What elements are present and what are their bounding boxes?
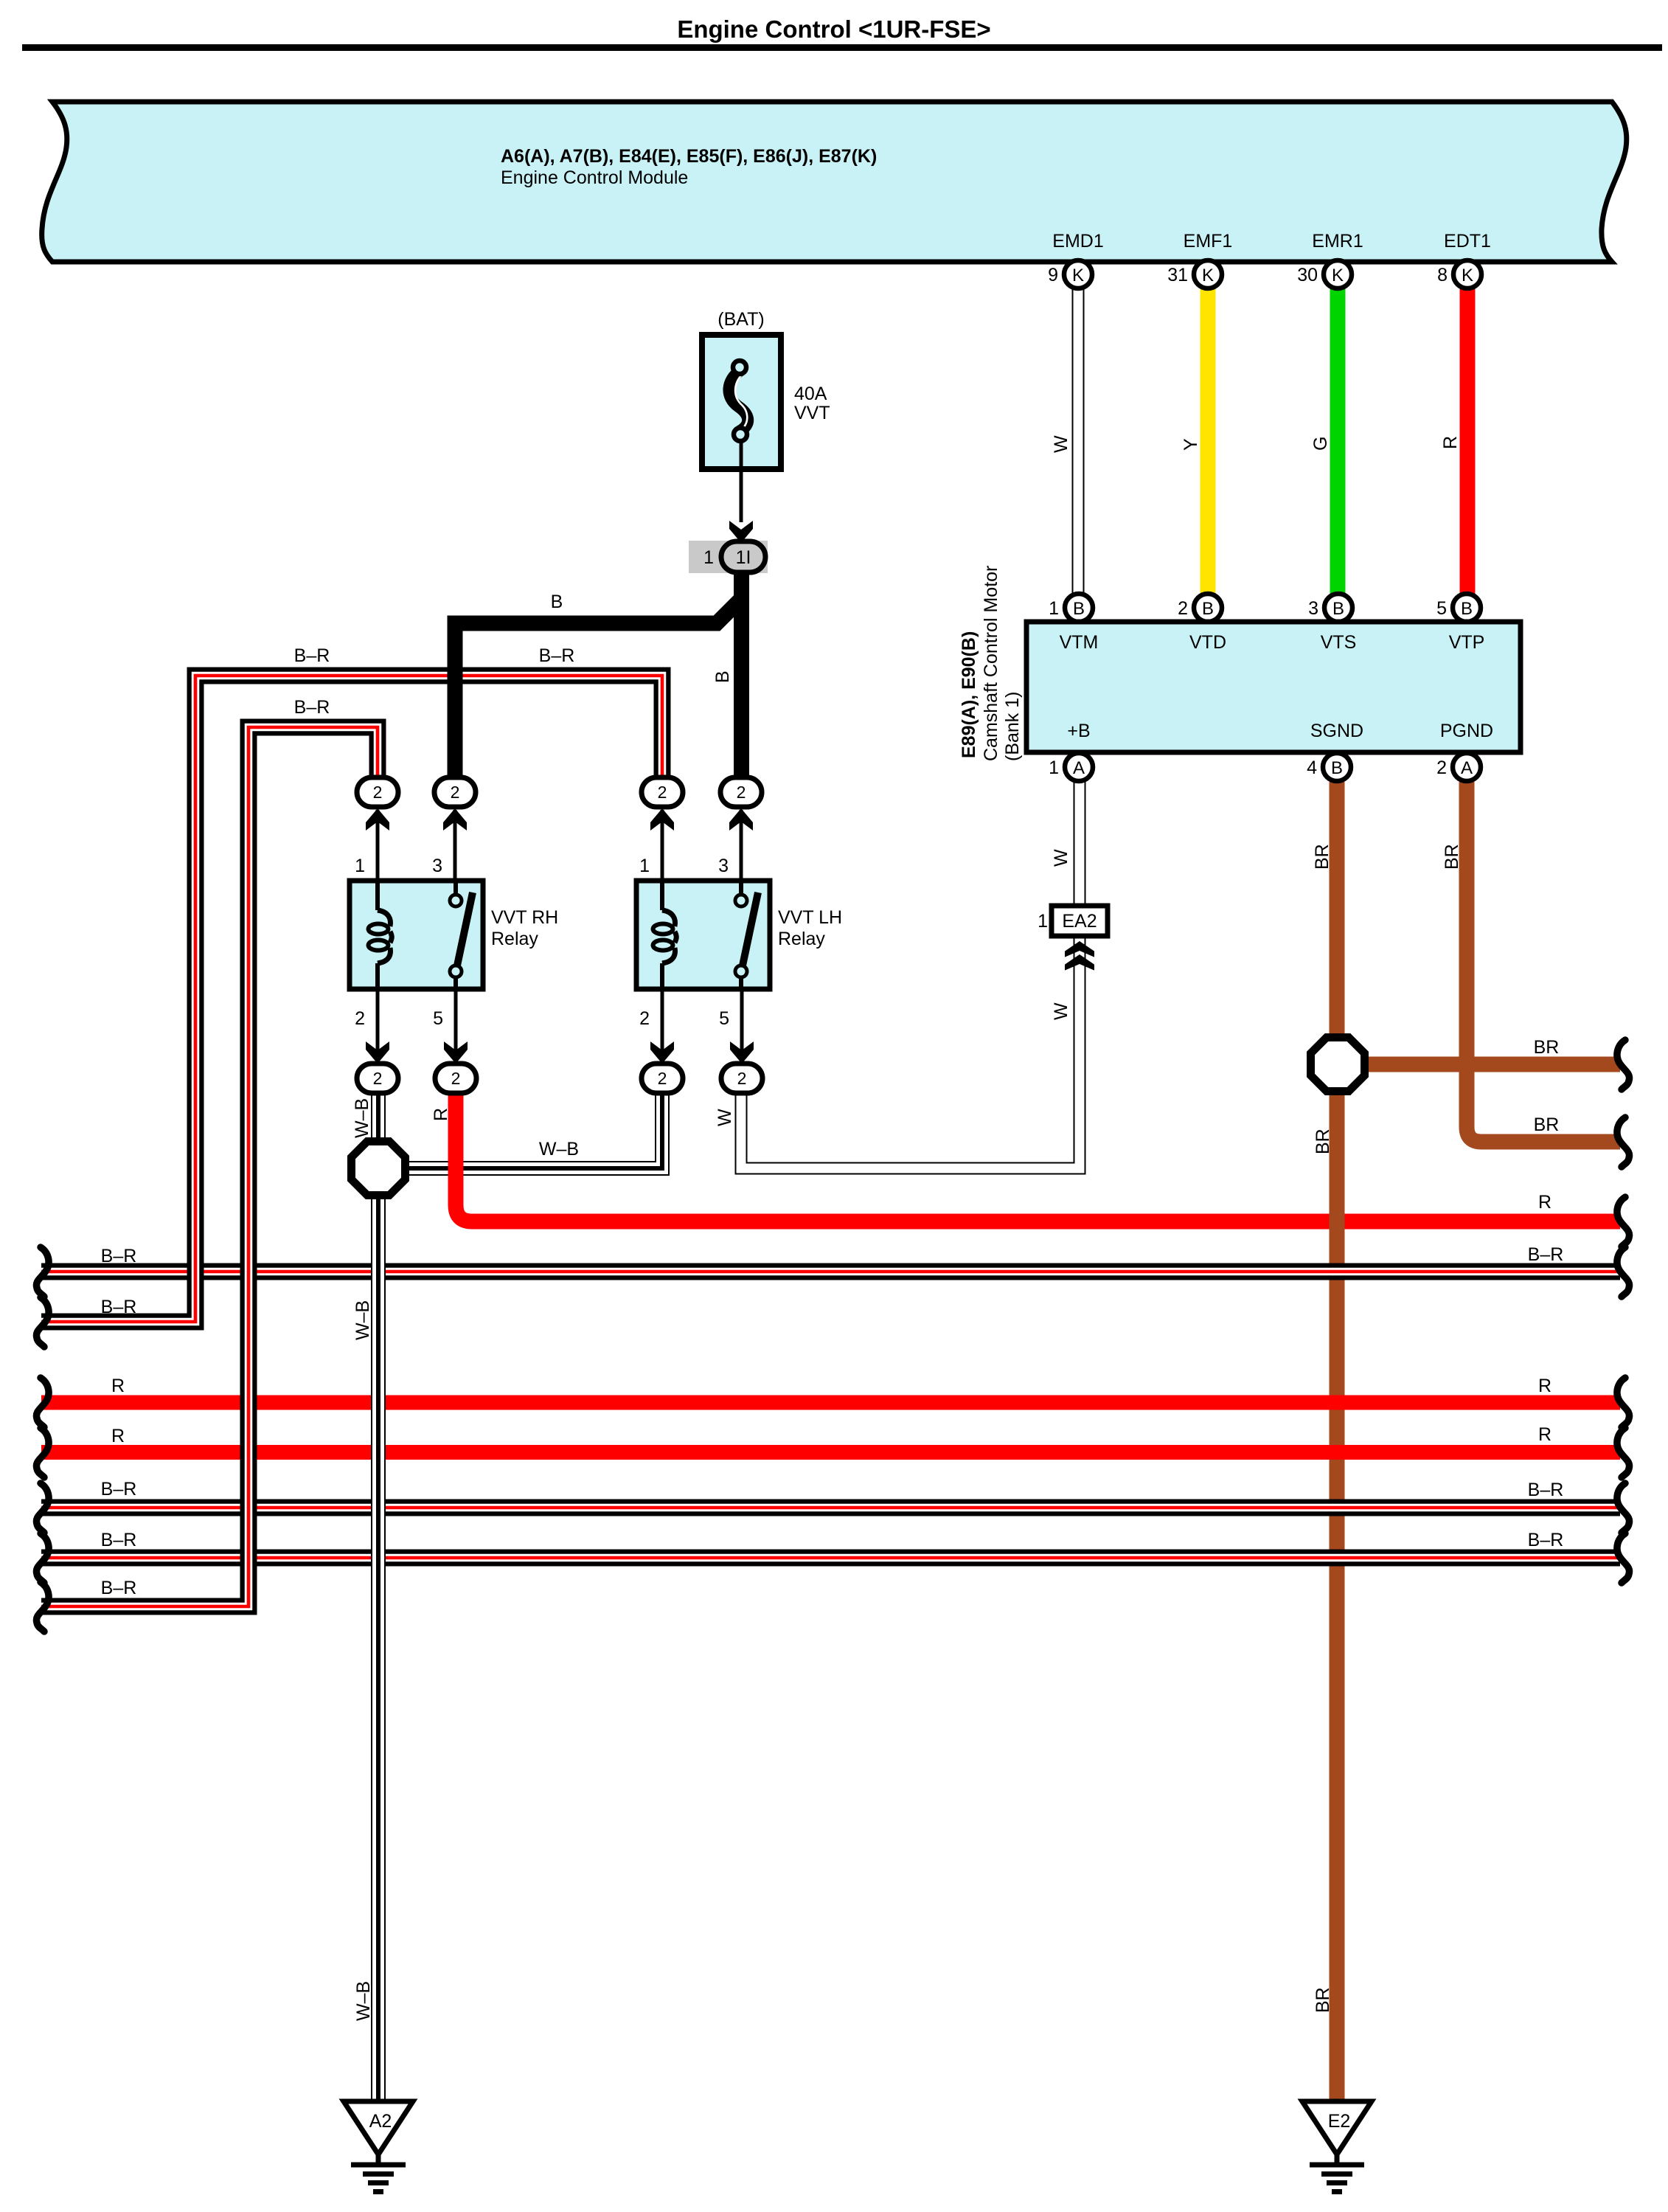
arrow into connector 1I <box>729 521 753 543</box>
break symbol BR branch right <box>1617 1040 1630 1089</box>
svg-text:EA2: EA2 <box>1062 911 1097 932</box>
svg-text:VVT: VVT <box>794 403 830 423</box>
wire BR SGND down to E2 <box>1330 782 1345 2101</box>
svg-text:R: R <box>431 1108 451 1121</box>
svg-text:B–R: B–R <box>294 697 330 718</box>
svg-text:2: 2 <box>355 1008 365 1029</box>
svg-text:1: 1 <box>639 856 650 876</box>
svg-text:B–R: B–R <box>101 1530 137 1550</box>
break symbol bus1 left <box>36 1247 49 1297</box>
wire relay pin 3 upper x=617 <box>454 810 457 881</box>
svg-text:1: 1 <box>1038 911 1048 932</box>
svg-text:VTS: VTS <box>1321 632 1357 653</box>
wire relay pin 2 lower x=512 <box>376 989 380 1062</box>
svg-text:BR: BR <box>1312 844 1332 870</box>
connector 2 below relay pin 5 <box>435 1064 476 1093</box>
svg-text:W: W <box>1051 849 1071 867</box>
svg-text:VTP: VTP <box>1449 632 1485 653</box>
svg-text:2: 2 <box>737 783 746 802</box>
svg-text:B–R: B–R <box>539 645 575 666</box>
svg-text:30: 30 <box>1297 265 1318 285</box>
wire relay pin 3 upper x=1005 <box>740 810 743 881</box>
svg-text:BR: BR <box>1534 1114 1560 1135</box>
svg-text:G: G <box>1310 437 1331 451</box>
svg-text:R: R <box>111 1376 125 1396</box>
break symbol bus3 right <box>1617 1483 1630 1533</box>
motor pin 1 (B) VTM <box>1049 594 1093 622</box>
svg-text:R: R <box>1538 1424 1551 1445</box>
EA2 double chevron <box>1065 941 1094 957</box>
ground E2 <box>1302 2101 1372 2192</box>
junction octagon (BR) <box>1311 1038 1365 1092</box>
svg-text:E2: E2 <box>1328 2111 1351 2132</box>
svg-text:2: 2 <box>737 1069 747 1088</box>
svg-text:Y: Y <box>1181 438 1201 451</box>
break symbol bus3 left <box>36 1483 49 1533</box>
svg-text:5: 5 <box>433 1008 443 1029</box>
svg-text:VTD: VTD <box>1189 632 1226 653</box>
wire relay pin 1 upper x=512 <box>376 810 380 881</box>
svg-text:3: 3 <box>718 856 729 876</box>
svg-text:R: R <box>1440 436 1461 449</box>
ECM pin 30 (K) EMR1 <box>1297 260 1352 288</box>
svg-text:3: 3 <box>432 856 442 876</box>
relay VVT RH box <box>350 881 483 989</box>
svg-text:1: 1 <box>1049 757 1059 778</box>
wire relay pin 2 lower x=898 <box>661 989 664 1062</box>
connector 2 above relay pin 1 <box>357 777 398 807</box>
svg-text:B: B <box>712 670 733 683</box>
bus wire R lower <box>41 1445 1620 1460</box>
wire relay pin 5 lower x=1006 <box>740 989 744 1062</box>
camshaft control motor E89/E90 box <box>1026 622 1521 752</box>
svg-text:EMD1: EMD1 <box>1052 231 1103 252</box>
svg-text:Camshaft Control Motor: Camshaft Control Motor <box>981 566 1001 761</box>
wire relay pin 1 upper x=898 <box>661 810 664 881</box>
ECM A6/A7/E84-E87 Engine Control Module box <box>42 102 1627 262</box>
svg-text:EDT1: EDT1 <box>1444 231 1491 252</box>
svg-text:EMF1: EMF1 <box>1184 231 1233 252</box>
connector 1I (gray highlight) <box>689 541 768 573</box>
svg-text:2: 2 <box>451 1069 461 1088</box>
svg-text:B–R: B–R <box>101 1297 137 1317</box>
svg-text:W–B: W–B <box>539 1139 579 1159</box>
svg-text:BR: BR <box>1313 1128 1333 1154</box>
connector 2 above relay pin 1 <box>642 777 683 807</box>
svg-text:Engine Control Module: Engine Control Module <box>501 167 688 188</box>
svg-text:W–B: W–B <box>353 1981 374 2021</box>
connector 2 below relay pin 5 <box>721 1064 762 1093</box>
wire W-B from VVT LH relay pin2 to junction <box>378 1092 662 1168</box>
svg-text:B–R: B–R <box>101 1578 137 1598</box>
wire relay pin 5 lower x=618 <box>454 989 458 1062</box>
connector 2 above relay pin 3 <box>434 777 476 807</box>
svg-text:VTM: VTM <box>1060 632 1099 653</box>
svg-text:1: 1 <box>1049 598 1059 619</box>
junction octagon (W-B) <box>352 1142 406 1196</box>
svg-text:BR: BR <box>1534 1037 1560 1058</box>
svg-text:B: B <box>1461 599 1473 619</box>
svg-text:A: A <box>1461 758 1473 778</box>
svg-text:A: A <box>1073 758 1085 778</box>
svg-text:A6(A), A7(B), E84(E), E85(F),: A6(A), A7(B), E84(E), E85(F), E86(J), E8… <box>501 146 877 167</box>
svg-text:B: B <box>1332 599 1344 619</box>
wire fuse to connector 1I <box>740 441 743 522</box>
svg-text:+B: +B <box>1067 721 1090 741</box>
svg-text:2: 2 <box>373 1069 383 1088</box>
connector EA2 <box>1038 906 1108 936</box>
svg-text:2: 2 <box>658 1069 667 1088</box>
bus wire R upper <box>41 1395 1620 1410</box>
svg-text:BR: BR <box>1442 844 1462 870</box>
svg-text:PGND: PGND <box>1440 721 1493 741</box>
svg-text:1I: 1I <box>736 547 751 568</box>
relay VVT LH box <box>636 881 770 989</box>
svg-text:Relay: Relay <box>491 929 538 949</box>
break symbol bus4 left <box>36 1533 49 1583</box>
connector 2 above relay pin 3 <box>720 777 762 807</box>
wire R from VVT RH relay pin5 to right <box>456 1092 1620 1221</box>
svg-text:B–R: B–R <box>1528 1244 1564 1265</box>
ECM pin 9 (K) EMD1 <box>1048 260 1092 288</box>
svg-text:VVT RH: VVT RH <box>491 907 558 928</box>
svg-text:1: 1 <box>355 856 365 876</box>
bus wire B-R (3rd) <box>41 1499 1620 1516</box>
ECM pin 8 (K) EDT1 <box>1437 260 1481 288</box>
svg-text:W–B: W–B <box>352 1300 373 1340</box>
svg-text:5: 5 <box>1436 598 1447 619</box>
svg-text:VVT LH: VVT LH <box>778 907 842 928</box>
svg-text:B–R: B–R <box>101 1479 137 1499</box>
svg-text:Engine Control <1UR-FSE>: Engine Control <1UR-FSE> <box>677 15 990 43</box>
wire B-R inner: bus stub to VVT RH relay pin1 <box>41 727 378 1606</box>
motor pin 5 (B) VTP <box>1436 594 1481 622</box>
break symbol busR2 right <box>1617 1428 1630 1477</box>
svg-text:31: 31 <box>1167 265 1188 285</box>
svg-text:9: 9 <box>1048 265 1058 285</box>
svg-text:B–R: B–R <box>1528 1480 1564 1500</box>
svg-text:E89(A), E90(B): E89(A), E90(B) <box>959 631 979 758</box>
svg-text:B–R: B–R <box>1528 1530 1564 1550</box>
wire BR PGND to right <box>1467 782 1620 1142</box>
relay VVT RH coil <box>369 881 392 989</box>
svg-text:EMR1: EMR1 <box>1312 231 1363 252</box>
wire W-B from junction down to A2 <box>371 1092 386 2101</box>
svg-text:BR: BR <box>1313 1987 1333 2013</box>
svg-text:B–R: B–R <box>294 645 330 666</box>
motor pin 1 (A) +B <box>1049 753 1093 781</box>
svg-text:8: 8 <box>1437 265 1448 285</box>
svg-text:R: R <box>1538 1376 1551 1396</box>
svg-text:40A: 40A <box>794 384 827 404</box>
ground A2 <box>344 2101 413 2192</box>
svg-text:Relay: Relay <box>778 929 825 949</box>
svg-text:R: R <box>1538 1192 1551 1213</box>
break symbol busR2 left <box>36 1428 49 1477</box>
break symbol R right <box>1617 1197 1630 1247</box>
svg-text:B–R: B–R <box>101 1246 137 1266</box>
svg-text:2: 2 <box>373 783 383 802</box>
break symbol bus4 right <box>1617 1533 1630 1583</box>
bus wire B-R full width <box>41 1263 1620 1280</box>
wire W from EMD1 pin 9 to VTM <box>1072 288 1085 594</box>
motor pin 3 (B) VTS <box>1308 594 1352 622</box>
svg-text:1: 1 <box>703 547 714 568</box>
svg-text:B: B <box>1073 599 1085 619</box>
svg-text:5: 5 <box>719 1008 729 1029</box>
wire BR branch from junction to right <box>1354 1057 1620 1072</box>
bus wire B-R (4th) <box>41 1550 1620 1567</box>
svg-text:A2: A2 <box>369 2111 392 2132</box>
title rule <box>22 44 1662 51</box>
svg-text:SGND: SGND <box>1310 721 1363 741</box>
relay VVT RH switch <box>450 881 473 989</box>
break symbol bus1 right <box>1617 1247 1630 1297</box>
svg-text:B: B <box>1202 599 1214 619</box>
break symbol busR1 right <box>1617 1378 1630 1427</box>
svg-text:3: 3 <box>1308 598 1318 619</box>
break symbol bus5 left <box>36 1582 49 1632</box>
svg-text:K: K <box>1332 266 1344 285</box>
svg-text:2: 2 <box>658 783 667 802</box>
break symbol bus2 left <box>36 1297 49 1347</box>
svg-text:2: 2 <box>1436 757 1447 778</box>
connector 2 below relay pin 2 <box>642 1064 683 1093</box>
fuse 40A VVT (BAT) <box>702 335 781 469</box>
motor pin 2 (A) PGND <box>1436 753 1481 781</box>
wire B restored over B-R crossing <box>448 659 463 693</box>
svg-text:B: B <box>1331 758 1343 778</box>
svg-text:(Bank 1): (Bank 1) <box>1002 692 1023 761</box>
wire Y from EMF1 pin 31 to VTD <box>1200 288 1216 594</box>
wire B-R outer: bus stub to VVT LH relay pin1 <box>41 676 662 1322</box>
svg-text:K: K <box>1462 266 1473 285</box>
break symbol busR1 left <box>36 1378 49 1427</box>
svg-text:2: 2 <box>1178 598 1188 619</box>
wire W from +B via EA2 to VVT LH relay pin5 <box>741 782 1080 1168</box>
svg-text:B: B <box>551 592 563 612</box>
svg-text:K: K <box>1072 266 1084 285</box>
wire R from EDT1 pin 8 to VTP <box>1460 288 1476 594</box>
svg-text:2: 2 <box>639 1008 650 1029</box>
ECM pin 31 (K) EMF1 <box>1167 260 1222 288</box>
svg-text:2: 2 <box>451 783 460 802</box>
connector 2 below relay pin 2 <box>357 1064 398 1093</box>
svg-text:R: R <box>111 1426 125 1446</box>
relay VVT LH switch <box>735 881 758 989</box>
svg-text:W: W <box>1051 435 1071 453</box>
svg-text:W–B: W–B <box>352 1098 372 1138</box>
svg-text:4: 4 <box>1307 757 1317 778</box>
motor pin 2 (B) VTD <box>1178 594 1222 622</box>
wire B vertical 1I to VVT LH relay pin3 connector <box>734 572 749 779</box>
motor pin 4 (B) SGND <box>1307 753 1351 781</box>
wire B branch to VVT RH relay pin3 connector <box>455 600 740 779</box>
wire G from EMR1 pin 30 to VTS <box>1330 288 1346 594</box>
svg-text:W: W <box>715 1109 735 1126</box>
svg-text:W: W <box>1051 1002 1071 1020</box>
svg-text:(BAT): (BAT) <box>717 309 764 330</box>
svg-text:K: K <box>1202 266 1214 285</box>
break symbol BR PGND right <box>1617 1117 1630 1167</box>
relay VVT LH coil <box>653 881 677 989</box>
